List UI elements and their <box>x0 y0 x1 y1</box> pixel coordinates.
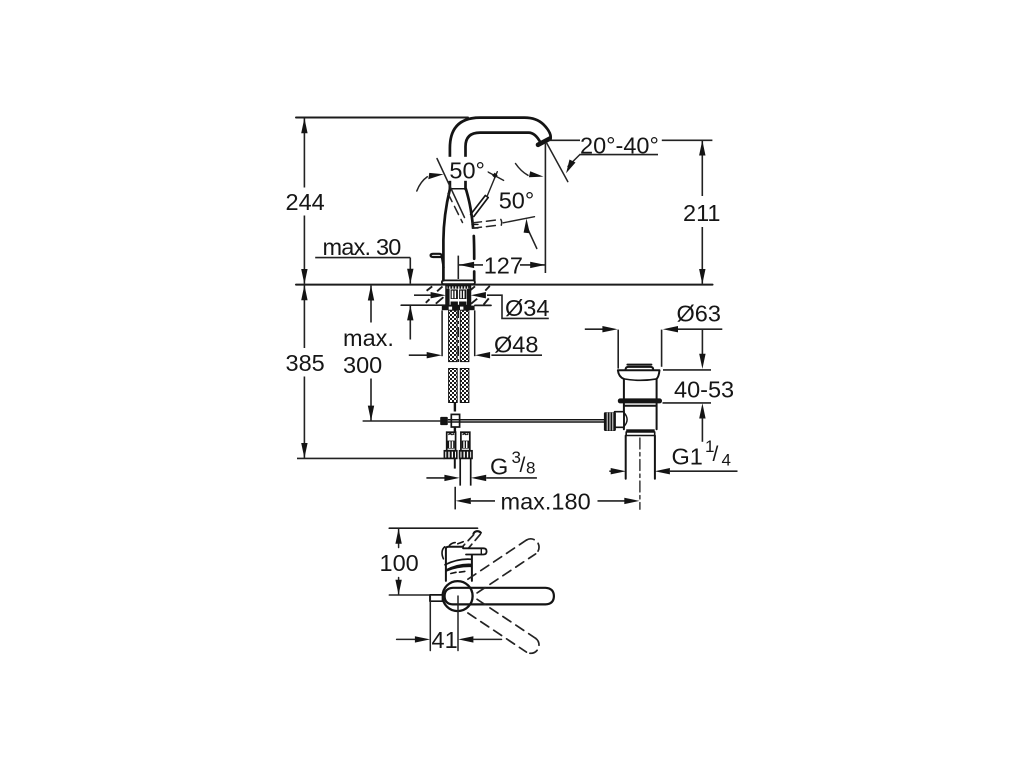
dim 211 top reference left segment <box>549 139 580 141</box>
body bottom ring dark <box>626 429 655 432</box>
dim 100 line upper <box>398 529 400 548</box>
handle lever axis thin line <box>487 172 497 197</box>
dim 385 line lower <box>303 377 305 459</box>
dim 211 line lower <box>701 227 703 284</box>
dim 127 arrow left <box>459 262 474 268</box>
popup plug cap <box>626 365 654 370</box>
dim max300 arrow top <box>368 285 374 300</box>
dim 41 extension left <box>429 596 431 651</box>
lever end dot <box>492 173 498 179</box>
dim 211 arrow bottom <box>699 269 705 284</box>
dim 100 line lower <box>398 578 400 595</box>
dim 41 line right <box>473 638 501 640</box>
hose end connector right <box>461 432 470 451</box>
rod end cap <box>440 417 448 425</box>
svg-text:41: 41 <box>432 627 458 653</box>
svg-text:300: 300 <box>343 352 382 378</box>
dim o48 arrow line left <box>409 354 428 356</box>
dim 100 arrow bottom <box>395 580 401 595</box>
dim max30 underline <box>315 257 410 259</box>
dim max300 line lower <box>370 379 372 421</box>
dim 41 arrow right <box>458 636 473 642</box>
dim 40-53 lower line <box>701 418 703 442</box>
dim o63 arrow right <box>663 326 678 332</box>
20-40 leader diagonal <box>568 155 580 167</box>
dim 127 tip extension line <box>544 144 546 274</box>
dim G114 arrow right <box>655 468 670 474</box>
o-ring seal <box>618 398 662 403</box>
dim max30 arrow up <box>407 305 413 320</box>
right tail tube <box>460 459 471 486</box>
svg-text:4: 4 <box>722 451 731 470</box>
lever end tick cross <box>487 171 504 180</box>
phantom lever edge dashes <box>463 535 473 546</box>
dim o34 arrow left <box>431 292 446 298</box>
threaded shank body <box>446 286 471 306</box>
dim 211 top reference right segment <box>662 139 713 141</box>
hatch marks right of shank <box>470 286 490 305</box>
body band upper arc <box>445 559 472 565</box>
svg-text:100: 100 <box>380 550 419 576</box>
pull rod pin <box>454 403 456 412</box>
knurled nut <box>604 412 616 431</box>
dim 40-53 bottom reference <box>663 402 712 404</box>
handle closed-position diagonal <box>437 159 465 218</box>
hole edge left <box>441 310 443 356</box>
shank bolt bottoms <box>451 302 458 306</box>
pivot ticks right edge <box>472 224 478 228</box>
dim 211 arrow top <box>699 140 705 155</box>
pivot circle <box>443 581 473 611</box>
svg-text:211: 211 <box>683 200 720 226</box>
50deg arc arrowhead <box>428 173 443 179</box>
svg-text:max. 30: max. 30 <box>323 234 402 260</box>
50deg arc arrow tail <box>417 177 428 191</box>
rod connector pin bottom <box>454 427 456 432</box>
valve body <box>624 404 657 430</box>
spout joint line <box>450 188 466 190</box>
dim o63 arrow left <box>602 326 617 332</box>
shank bolt left <box>451 289 458 299</box>
dim o63 extension left <box>617 330 619 369</box>
hose end connector left <box>447 432 456 451</box>
waste flange <box>618 370 660 398</box>
svg-text:50°: 50° <box>449 157 485 183</box>
dim 40-53 upper line <box>701 330 703 355</box>
braided hose left upper <box>449 310 458 361</box>
dim 127 center extension line <box>457 256 459 279</box>
svg-text:max.180: max.180 <box>501 488 591 514</box>
hex nut right <box>460 451 472 459</box>
dim o34 arrow line left <box>414 294 432 296</box>
dim 127 arrow right <box>530 262 545 268</box>
lower reference line <box>389 594 429 596</box>
body bottom ring <box>626 432 655 436</box>
faucet body right edge upper <box>466 189 473 227</box>
svg-text:50°: 50° <box>499 187 535 213</box>
tailpipe <box>626 436 655 479</box>
dim G38 arrow right <box>471 475 486 481</box>
dim G38 arrow left <box>444 475 459 481</box>
shank centerline <box>457 308 459 362</box>
dim max300 arrow bottom <box>368 406 374 421</box>
dim o34 arrow right <box>471 292 486 298</box>
svg-text:385: 385 <box>286 350 325 376</box>
shank side bars <box>446 289 450 306</box>
svg-text:244: 244 <box>286 189 325 215</box>
dim 385 line upper <box>303 285 305 348</box>
dim o63 line left <box>585 328 604 330</box>
mounting nut under counter <box>442 306 475 311</box>
svg-text:G: G <box>490 454 508 480</box>
svg-text:40-53: 40-53 <box>674 376 734 402</box>
dim 244 line upper <box>303 118 305 187</box>
knob bar <box>463 548 487 554</box>
svg-text:G1: G1 <box>672 443 703 469</box>
svg-text:20°-40°: 20°-40° <box>580 132 659 158</box>
hatch marks left of shank <box>426 286 444 303</box>
base plate <box>442 280 475 284</box>
svg-text:Ø63: Ø63 <box>677 301 721 327</box>
dim 244 line lower <box>303 216 305 284</box>
dim max180 line right <box>598 500 626 502</box>
spout inner outline <box>466 133 541 189</box>
dim max180 line left <box>471 500 495 502</box>
spout swivel arc arrowhead <box>529 171 544 177</box>
dim 41 extension right <box>457 596 459 651</box>
rod connector block <box>451 414 459 427</box>
dim G38 underline <box>486 477 537 479</box>
dim 127 line right <box>520 264 545 266</box>
dim max30 lower line <box>409 306 411 340</box>
horizontal rod left thin line <box>363 420 441 422</box>
left tail rod <box>454 459 456 469</box>
handle lever rod <box>471 196 489 217</box>
handle hidden dashes <box>448 194 463 223</box>
dim 40-53 arrow down <box>699 354 705 369</box>
shank top thread row <box>448 286 469 289</box>
lever bar solid <box>445 588 554 605</box>
dim 385 bottom reference line <box>297 457 444 459</box>
dim o63 extension right <box>661 330 663 367</box>
dim o63 underline <box>678 328 722 330</box>
svg-text:Ø48: Ø48 <box>494 331 538 357</box>
top view reference line <box>389 527 477 529</box>
open lever axis thin line <box>503 217 534 223</box>
flange inner curve <box>624 379 657 380</box>
svg-text:127: 127 <box>484 253 523 279</box>
knob inner line <box>480 548 482 554</box>
20-40 leader arrowhead <box>566 160 575 174</box>
dim 244 arrow bottom <box>301 269 307 284</box>
dim G114 arrow left <box>611 468 626 474</box>
side port <box>615 412 624 428</box>
svg-text:/: / <box>520 454 526 477</box>
spout swivel arc arrow tail <box>516 164 529 176</box>
braided hose right upper <box>460 310 469 361</box>
body left bulge arc <box>442 547 445 559</box>
side port arc <box>624 413 627 427</box>
dim o34 leader <box>487 295 549 318</box>
top reference line <box>296 117 468 119</box>
faucet body right edge lower <box>472 236 475 259</box>
text 50deg first background <box>448 157 488 181</box>
svg-text:8: 8 <box>526 459 535 478</box>
dim max180 arrow left <box>456 498 471 504</box>
dim G114 line left <box>609 470 612 472</box>
dim max30 drop line <box>409 258 411 284</box>
band ticks <box>451 571 465 573</box>
dim 40-53 arrow up <box>699 403 705 418</box>
phantom lever tip cap <box>473 531 481 534</box>
counter underside line right <box>475 304 491 306</box>
dim G114 underline <box>670 470 738 472</box>
body outline top view <box>446 547 472 581</box>
dim 40-53 top reference <box>663 369 711 371</box>
dim 20-40 underline <box>580 154 658 156</box>
hex nut left <box>444 451 456 459</box>
right 50 arc arrow tail <box>527 228 537 249</box>
phantom lever lower-right <box>468 599 539 653</box>
dim max180 extension <box>454 487 456 510</box>
dim max30 arrow down <box>407 269 413 284</box>
dim G38 line left <box>426 477 446 479</box>
dim o48 arrow left <box>427 352 442 358</box>
dim max180 arrow right <box>624 498 639 504</box>
faucet body left edge <box>443 189 450 280</box>
hole edge right <box>474 310 476 356</box>
dashed open lever top edge <box>473 220 500 223</box>
dim o48 arrow right <box>475 352 490 358</box>
dim 244 arrow top <box>301 118 307 133</box>
dim 385 arrow top <box>301 285 307 300</box>
counter top line <box>296 284 713 286</box>
braided hose right lower <box>460 369 469 403</box>
pull rod knob <box>431 254 444 268</box>
svg-text:/: / <box>713 443 719 466</box>
dim 211 line upper <box>701 141 703 196</box>
right 50 arc arrowhead <box>524 219 530 234</box>
svg-text:max.: max. <box>343 325 394 351</box>
dome arcs <box>449 542 463 546</box>
spout angle diagonal <box>547 143 568 182</box>
dim 127 line left <box>459 264 483 266</box>
side port top view <box>430 595 443 601</box>
dim 41 arrow left <box>415 636 430 642</box>
dim o48 underline <box>491 354 542 356</box>
spout outer outline <box>450 118 551 189</box>
dashed open lever end cap <box>500 219 503 225</box>
shank bolt right <box>459 289 466 299</box>
spout mouth face <box>538 139 550 145</box>
svg-text:Ø34: Ø34 <box>505 295 549 321</box>
horizontal rod to drain <box>448 420 604 422</box>
dim 41 line left <box>397 638 417 640</box>
counter underside line left <box>401 304 446 306</box>
body band lower dark <box>445 564 471 572</box>
phantom lever upper-right <box>468 539 539 593</box>
dim 385 arrow bottom <box>301 443 307 458</box>
dim 100 arrow top <box>395 529 401 544</box>
drain centerline <box>639 438 641 509</box>
dim max300 line upper <box>370 286 372 323</box>
braided hose left lower <box>449 369 458 403</box>
dashed open lever bottom edge <box>473 225 501 228</box>
